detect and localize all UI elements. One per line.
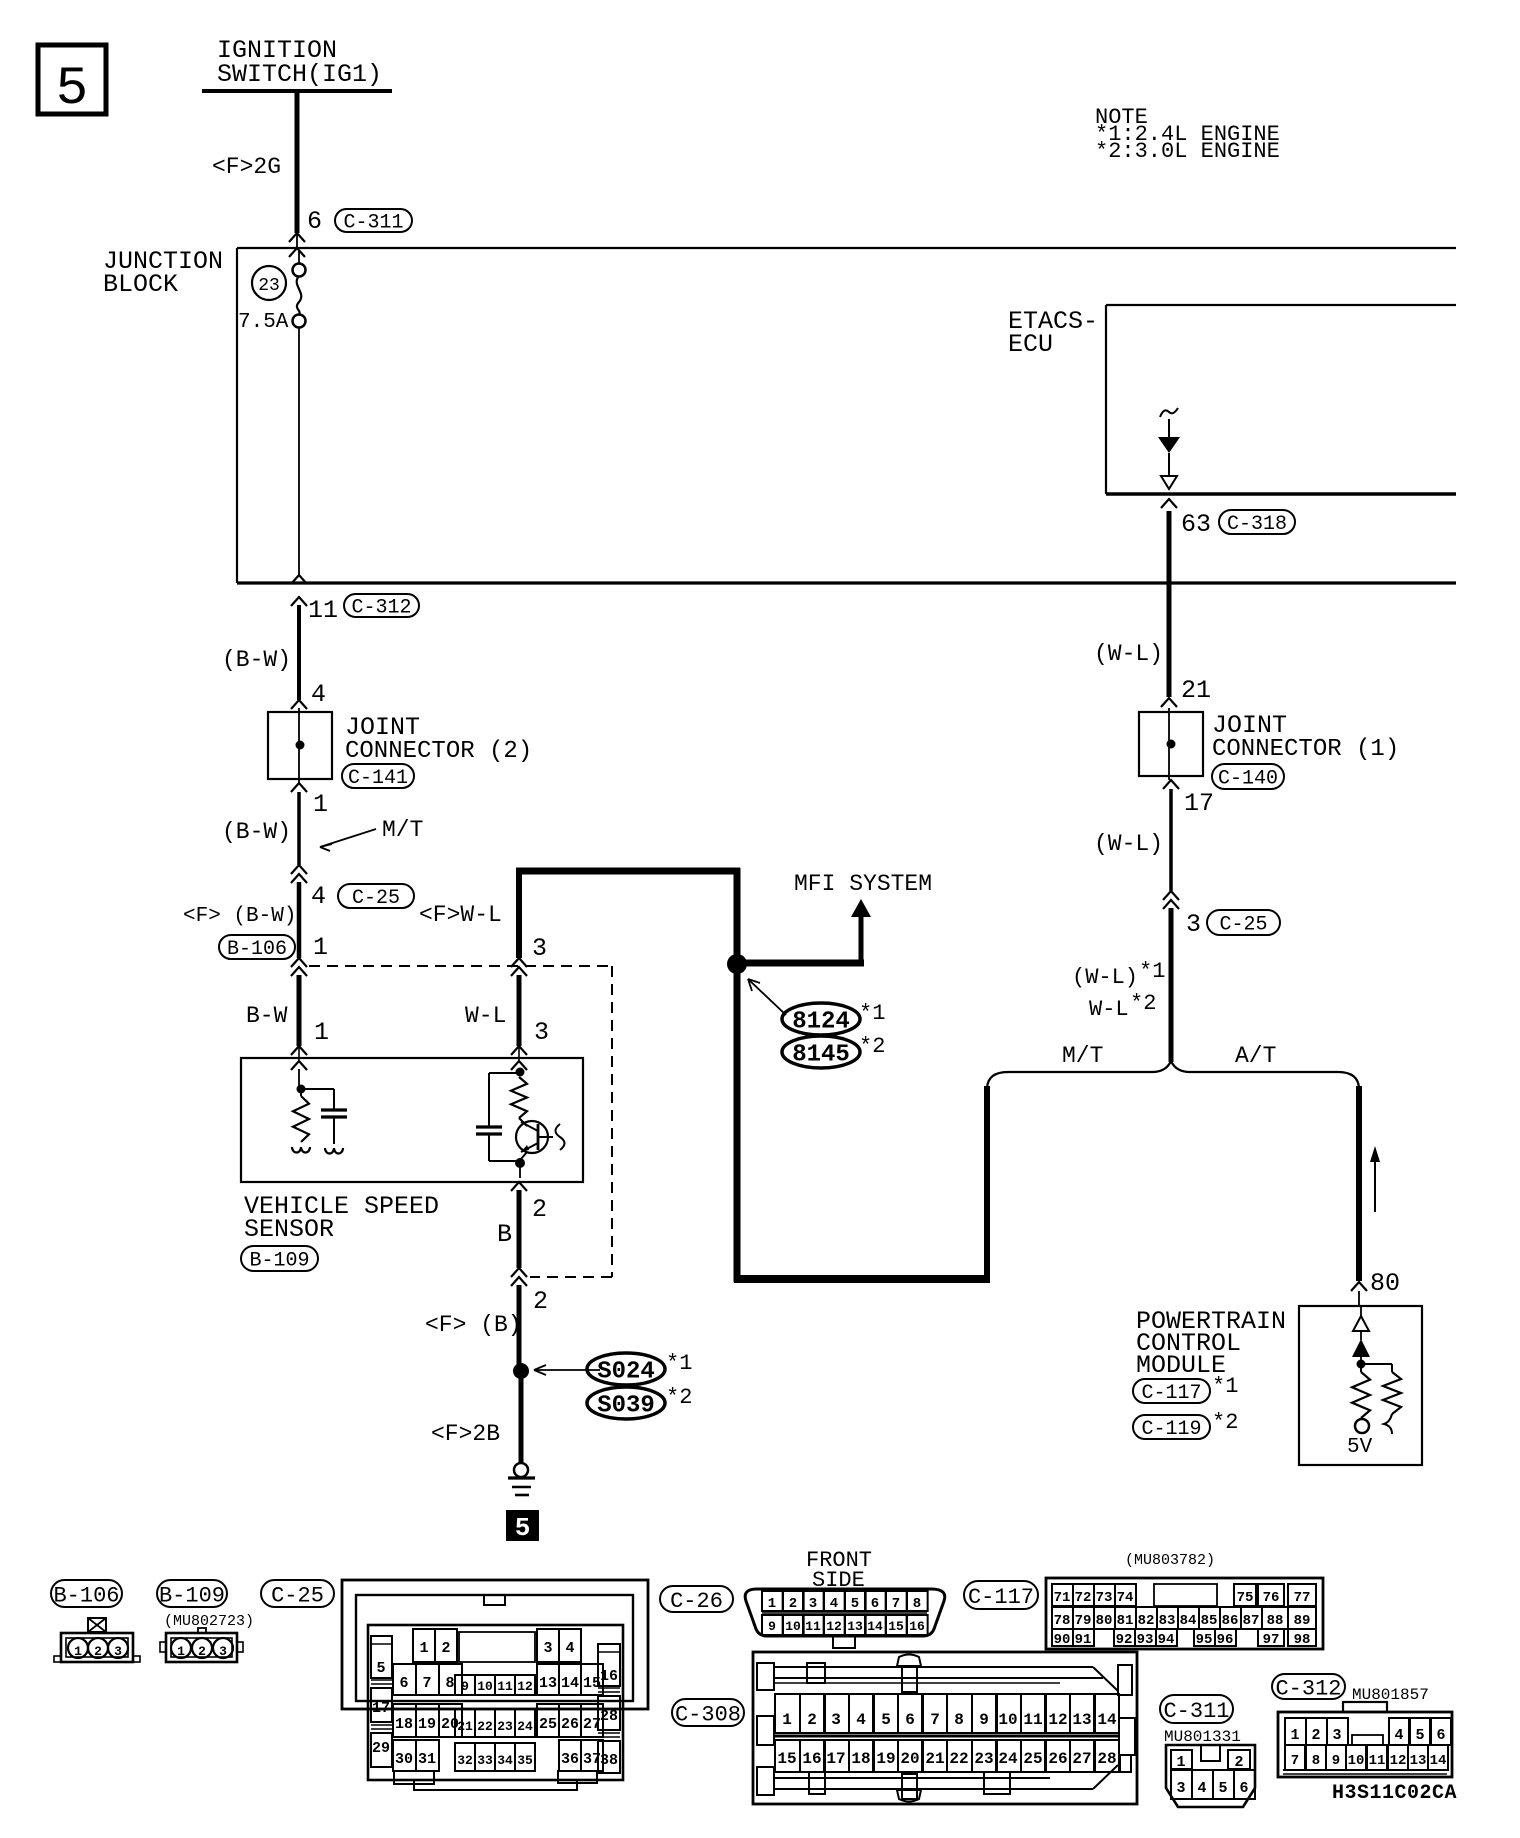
svg-text:SENSOR: SENSOR xyxy=(244,1215,334,1244)
svg-text:11: 11 xyxy=(1369,1753,1386,1769)
svg-text:(MU802723): (MU802723) xyxy=(164,1613,254,1630)
svg-text:8145: 8145 xyxy=(792,1042,850,1069)
svg-text:77: 77 xyxy=(1294,1590,1311,1606)
svg-text:80: 80 xyxy=(1370,1269,1400,1298)
wire label (F)(B) xyxy=(425,1312,522,1338)
splice S039 xyxy=(587,1387,665,1420)
svg-text:1: 1 xyxy=(419,1640,428,1657)
svg-text:SWITCH(IG1): SWITCH(IG1) xyxy=(217,60,382,89)
pcm 5V source xyxy=(1347,1419,1373,1459)
splice 8124 note *1 xyxy=(859,1001,885,1026)
svg-text:3: 3 xyxy=(809,1596,817,1612)
M/T note arrow xyxy=(320,817,423,851)
svg-text:24: 24 xyxy=(998,1750,1018,1768)
chevron joint connector 1 pin 17 xyxy=(1163,780,1179,789)
svg-text:17: 17 xyxy=(1184,789,1214,818)
svg-text:13: 13 xyxy=(539,1675,557,1692)
sensor right wire xyxy=(518,1069,520,1072)
double chevron sensor branch pin 3 xyxy=(511,958,527,976)
svg-text:14: 14 xyxy=(561,1675,579,1692)
svg-text:6: 6 xyxy=(905,1711,915,1729)
chevron above junction block bottom xyxy=(291,575,307,584)
pin 1 label B-106 xyxy=(313,933,328,962)
svg-text:89: 89 xyxy=(1294,1613,1311,1629)
svg-text:37: 37 xyxy=(583,1751,601,1768)
svg-text:27: 27 xyxy=(583,1716,601,1733)
svg-text:81: 81 xyxy=(1117,1613,1134,1629)
svg-text:4: 4 xyxy=(830,1596,838,1612)
svg-text:(W-L): (W-L) xyxy=(1072,965,1138,990)
junction block outline xyxy=(237,248,1456,583)
svg-text:21: 21 xyxy=(925,1750,944,1768)
pin 4 label upper xyxy=(311,680,326,709)
svg-text:1: 1 xyxy=(74,1644,82,1659)
chevron C-318 pin 63 xyxy=(1161,499,1177,508)
vehicle speed sensor box xyxy=(241,1058,583,1182)
svg-text:1: 1 xyxy=(1290,1727,1299,1744)
svg-text:75: 75 xyxy=(1237,1590,1254,1606)
svg-text:8: 8 xyxy=(1312,1753,1320,1769)
connector C-26 face xyxy=(745,1589,945,1648)
svg-text:10: 10 xyxy=(998,1711,1017,1729)
svg-text:26: 26 xyxy=(561,1716,579,1733)
svg-text:C-25: C-25 xyxy=(271,1583,324,1608)
svg-text:5: 5 xyxy=(376,1660,385,1677)
joint connector 1 title xyxy=(1212,711,1399,763)
svg-text:6: 6 xyxy=(871,1596,879,1612)
diode in ETACS-ECU xyxy=(1158,408,1180,489)
svg-text:33: 33 xyxy=(477,1753,493,1768)
svg-text:<F> (B): <F> (B) xyxy=(425,1312,522,1338)
svg-text:(B-W): (B-W) xyxy=(222,819,291,845)
svg-text:B-106: B-106 xyxy=(227,938,287,961)
chevron joint connector 1 pin 21 xyxy=(1161,698,1177,707)
svg-text:10: 10 xyxy=(785,1619,801,1634)
svg-text:6: 6 xyxy=(399,1675,408,1692)
svg-text:2: 2 xyxy=(441,1640,450,1657)
powertrain control module label xyxy=(1136,1307,1286,1380)
svg-text:96: 96 xyxy=(1217,1632,1234,1648)
svg-text:87: 87 xyxy=(1243,1613,1260,1629)
brace split M/T A/T xyxy=(987,1061,1359,1088)
svg-text:16: 16 xyxy=(909,1619,925,1634)
svg-text:4: 4 xyxy=(856,1711,866,1729)
svg-text:84: 84 xyxy=(1180,1613,1197,1629)
svg-text:86: 86 xyxy=(1222,1613,1239,1629)
pin 3 label sensor xyxy=(534,1018,549,1047)
svg-text:5: 5 xyxy=(56,59,88,120)
svg-text:3: 3 xyxy=(543,1640,552,1657)
svg-text:15: 15 xyxy=(777,1750,796,1768)
wire label (W-L) xyxy=(1094,641,1163,667)
double chevron F B xyxy=(511,1268,527,1286)
svg-text:MU801331: MU801331 xyxy=(1164,1728,1241,1746)
wire W-L to MT AT split xyxy=(1169,908,1174,1062)
wire ignition switch to C-311 (F)2G xyxy=(295,91,300,233)
splice S024 note *1 xyxy=(666,1351,692,1376)
svg-text:*1: *1 xyxy=(666,1351,692,1376)
C-117 part number xyxy=(1125,1552,1215,1569)
svg-text:A/T: A/T xyxy=(1235,1043,1276,1069)
joint connector 2 C-141 xyxy=(268,708,332,783)
svg-text:32: 32 xyxy=(457,1753,473,1768)
front side label xyxy=(806,1548,872,1593)
C-312 part number xyxy=(1352,1686,1429,1704)
svg-text:93: 93 xyxy=(1137,1632,1154,1648)
connector label C-25 right xyxy=(1207,910,1280,937)
svg-text:14: 14 xyxy=(1430,1753,1447,1769)
chevron PCM pin 80 xyxy=(1351,1282,1367,1306)
wire label (W-L) lower xyxy=(1094,831,1163,857)
svg-text:B-106: B-106 xyxy=(53,1583,119,1608)
connector label C-312 xyxy=(344,594,419,620)
svg-text:22: 22 xyxy=(949,1750,968,1768)
svg-text:C-318: C-318 xyxy=(1227,513,1287,536)
svg-text:2: 2 xyxy=(94,1644,102,1659)
svg-text:9: 9 xyxy=(1332,1753,1340,1769)
svg-text:W-L: W-L xyxy=(465,1003,506,1029)
svg-text:1: 1 xyxy=(782,1711,792,1729)
chevron sensor pin 3 xyxy=(511,1046,527,1060)
connector label C-119 pcm xyxy=(1133,1415,1210,1441)
svg-text:91: 91 xyxy=(1075,1632,1092,1648)
svg-text:2: 2 xyxy=(198,1644,206,1659)
svg-text:4: 4 xyxy=(1197,1780,1206,1797)
arrow to splice S024 xyxy=(534,1365,600,1375)
wire label F W-L xyxy=(419,902,502,928)
joint connector 1 C-140 xyxy=(1139,708,1203,780)
pin 1 label xyxy=(313,790,328,819)
svg-text:1: 1 xyxy=(177,1644,185,1659)
connector B-109 face xyxy=(160,1628,243,1662)
wire B to ground xyxy=(517,1190,522,1268)
svg-text:27: 27 xyxy=(1072,1750,1091,1768)
svg-text:10: 10 xyxy=(477,1679,493,1694)
wire label B xyxy=(497,1220,512,1249)
chevron into junction block xyxy=(289,248,305,257)
svg-text:W-L: W-L xyxy=(1089,997,1129,1022)
wire label (F)2B xyxy=(431,1421,500,1447)
svg-text:*2: *2 xyxy=(859,1034,885,1059)
svg-text:3: 3 xyxy=(114,1644,122,1659)
svg-text:8: 8 xyxy=(954,1711,964,1729)
svg-text:22: 22 xyxy=(477,1719,493,1734)
svg-text:17: 17 xyxy=(372,1700,390,1717)
wire (W-L) joint connector 1 to C-25 xyxy=(1169,789,1173,891)
fuse 7.5A xyxy=(238,250,306,334)
svg-text:B-W: B-W xyxy=(246,1003,288,1029)
svg-text:6: 6 xyxy=(1436,1727,1445,1744)
svg-text:7.5A: 7.5A xyxy=(238,311,289,334)
sensor capacitor C right xyxy=(476,1073,519,1161)
svg-text:4: 4 xyxy=(311,882,326,911)
svg-text:9: 9 xyxy=(461,1679,469,1694)
connector label C-141 xyxy=(342,764,414,790)
page number 5 box xyxy=(38,45,106,120)
powertrain control module box xyxy=(1299,1306,1422,1465)
svg-text:2: 2 xyxy=(807,1711,817,1729)
MFI system arrow xyxy=(851,899,871,917)
svg-text:ECU: ECU xyxy=(1008,330,1053,359)
svg-text:6: 6 xyxy=(1239,1780,1248,1797)
svg-text:8: 8 xyxy=(445,1675,454,1692)
connector C-117 face xyxy=(1046,1578,1323,1649)
svg-text:85: 85 xyxy=(1201,1613,1218,1629)
svg-text:14: 14 xyxy=(1097,1711,1117,1729)
svg-text:3: 3 xyxy=(831,1711,841,1729)
svg-text:<F> (B-W): <F> (B-W) xyxy=(183,905,296,928)
svg-text:B-109: B-109 xyxy=(159,1583,225,1608)
svg-text:26: 26 xyxy=(1048,1750,1067,1768)
wire MFI branch horizontal xyxy=(737,960,864,967)
svg-text:21: 21 xyxy=(1181,676,1211,705)
svg-text:12: 12 xyxy=(1390,1753,1407,1769)
connector B-106 face xyxy=(54,1618,140,1662)
connector label B-109 bottom xyxy=(157,1580,227,1608)
svg-text:*1: *1 xyxy=(1139,959,1165,984)
svg-text:95: 95 xyxy=(1196,1632,1213,1648)
svg-text:34: 34 xyxy=(497,1753,513,1768)
svg-text:98: 98 xyxy=(1294,1632,1311,1648)
svg-text:C-117: C-117 xyxy=(968,1585,1034,1610)
wire (F)(B) xyxy=(517,1285,522,1371)
svg-text:11: 11 xyxy=(497,1679,513,1694)
junction node S024 xyxy=(513,1363,529,1379)
svg-text:C-140: C-140 xyxy=(1218,768,1278,791)
pin 17 label xyxy=(1184,789,1214,818)
svg-text:5: 5 xyxy=(515,1513,531,1543)
splice S039 note *2 xyxy=(666,1385,692,1410)
wire fuse to C-312 xyxy=(298,327,300,576)
pin 2 label lower xyxy=(533,1287,548,1316)
svg-text:(W-L): (W-L) xyxy=(1094,641,1163,667)
svg-text:M/T: M/T xyxy=(382,817,423,843)
wire A/T branch vertical xyxy=(1356,1086,1362,1281)
wire heavy M/T branch vertical xyxy=(984,1086,990,1282)
branch label M/T xyxy=(1062,1043,1103,1069)
svg-text:9: 9 xyxy=(979,1711,989,1729)
svg-text:16: 16 xyxy=(802,1750,821,1768)
svg-text:5: 5 xyxy=(1218,1780,1227,1797)
svg-text:S039: S039 xyxy=(597,1393,655,1420)
wire to ground symbol xyxy=(519,1371,524,1463)
svg-text:17: 17 xyxy=(826,1750,845,1768)
dashed option outline xyxy=(309,966,612,1277)
svg-text:H3S11C02CA: H3S11C02CA xyxy=(1332,1782,1457,1805)
svg-text:24: 24 xyxy=(517,1719,533,1734)
pcm wire to right resistor xyxy=(1361,1364,1392,1372)
svg-text:19: 19 xyxy=(876,1750,895,1768)
svg-text:*2: *2 xyxy=(666,1385,692,1410)
svg-text:31: 31 xyxy=(418,1751,436,1768)
svg-text:(W-L): (W-L) xyxy=(1094,831,1163,857)
svg-text:78: 78 xyxy=(1054,1613,1071,1629)
svg-text:3: 3 xyxy=(532,934,547,963)
chevron joint connector 2 pin 1 xyxy=(291,783,307,792)
svg-text:4: 4 xyxy=(1394,1727,1403,1744)
sensor transistor Q xyxy=(516,1118,565,1159)
chevron inside sensor right xyxy=(511,1061,527,1070)
svg-text:8124: 8124 xyxy=(792,1009,850,1036)
svg-text:76: 76 xyxy=(1263,1590,1280,1606)
wire heavy W-L horizontal upper xyxy=(516,868,740,875)
connector label C-140 xyxy=(1212,764,1284,791)
MFI SYSTEM label xyxy=(794,871,932,897)
svg-text:28: 28 xyxy=(1097,1750,1116,1768)
svg-text:C-141: C-141 xyxy=(348,767,408,790)
svg-text:35: 35 xyxy=(517,1753,533,1768)
svg-text:80: 80 xyxy=(1096,1613,1113,1629)
svg-text:M/T: M/T xyxy=(1062,1043,1103,1069)
svg-text:B-109: B-109 xyxy=(249,1250,309,1273)
svg-text:15: 15 xyxy=(888,1619,904,1634)
svg-text:79: 79 xyxy=(1075,1613,1092,1629)
connector label C-311 xyxy=(335,209,412,235)
pin 6 label xyxy=(307,207,322,236)
ignition switch label xyxy=(217,36,382,89)
wire label W-L*2 xyxy=(1089,991,1156,1022)
svg-text:18: 18 xyxy=(395,1716,413,1733)
svg-text:2: 2 xyxy=(789,1596,797,1612)
connector C-308 face xyxy=(753,1652,1137,1804)
svg-text:7: 7 xyxy=(1291,1753,1299,1769)
svg-text:*2: *2 xyxy=(1212,1410,1238,1435)
svg-text:3: 3 xyxy=(534,1018,549,1047)
svg-text:1: 1 xyxy=(768,1596,776,1612)
drawing number xyxy=(1332,1782,1457,1805)
svg-text:CONNECTOR (1): CONNECTOR (1) xyxy=(1212,736,1399,763)
svg-text:63: 63 xyxy=(1181,510,1211,539)
svg-text:C-312: C-312 xyxy=(1275,1676,1341,1701)
svg-text:C-25: C-25 xyxy=(352,887,400,910)
svg-text:23: 23 xyxy=(974,1750,993,1768)
svg-text:C-311: C-311 xyxy=(343,212,403,235)
wire label (W-L)*1 xyxy=(1072,959,1165,990)
svg-text:4: 4 xyxy=(565,1640,574,1657)
svg-text:19: 19 xyxy=(418,1716,436,1733)
pin 1 label sensor xyxy=(314,1018,329,1047)
svg-text:1: 1 xyxy=(313,790,328,819)
chevron C-312 pin 11 xyxy=(291,597,307,606)
sensor title xyxy=(244,1192,439,1244)
junction block label xyxy=(103,247,223,299)
wire heavy horizontal bottom xyxy=(734,1275,990,1283)
pin 80 label xyxy=(1370,1269,1400,1298)
svg-text:83: 83 xyxy=(1159,1613,1176,1629)
chevron sensor pin 2 xyxy=(511,1182,527,1191)
connector C-311 face xyxy=(1166,1745,1255,1807)
wire (F)(B-W) to B-106 xyxy=(297,882,302,958)
svg-text:73: 73 xyxy=(1096,1590,1113,1606)
double chevron C-25 pin 4 xyxy=(291,865,307,883)
svg-text:C-117: C-117 xyxy=(1141,1382,1201,1405)
connector label C-25 bottom xyxy=(261,1580,334,1608)
svg-text:7: 7 xyxy=(892,1596,900,1612)
svg-text:4: 4 xyxy=(311,680,326,709)
svg-text:B: B xyxy=(497,1220,512,1249)
svg-text:30: 30 xyxy=(395,1751,413,1768)
B-109 part number xyxy=(164,1613,254,1630)
svg-text:12: 12 xyxy=(517,1679,533,1694)
svg-text:5: 5 xyxy=(1415,1727,1424,1744)
pcm node xyxy=(1357,1360,1366,1369)
svg-text:5V: 5V xyxy=(1347,1436,1373,1459)
joint connector 2 title xyxy=(345,713,532,765)
svg-text:C-119: C-119 xyxy=(1141,1418,1201,1441)
svg-text:14: 14 xyxy=(867,1619,883,1634)
svg-text:<F>W-L: <F>W-L xyxy=(419,902,502,928)
sensor node right top xyxy=(516,1068,525,1077)
sensor capacitor C left xyxy=(301,1089,347,1154)
C-311 part number xyxy=(1164,1728,1241,1746)
svg-text:23: 23 xyxy=(258,276,280,296)
junction node MFI splice xyxy=(727,954,747,974)
svg-text:7: 7 xyxy=(930,1711,940,1729)
sensor node bottom xyxy=(515,1158,525,1168)
pin 3 label top xyxy=(532,934,547,963)
svg-text:3: 3 xyxy=(1332,1727,1341,1744)
svg-text:18: 18 xyxy=(851,1750,870,1768)
connector label B-106 mid xyxy=(219,935,295,961)
splice S024 xyxy=(587,1353,665,1386)
splice 8145 xyxy=(782,1036,860,1069)
page ref 5 black box xyxy=(506,1510,539,1543)
wire label W-L xyxy=(465,1003,506,1029)
wire heavy W-L vertical to sensor xyxy=(516,868,522,958)
pin 11 label xyxy=(308,596,338,625)
svg-text:BLOCK: BLOCK xyxy=(103,270,178,299)
connector label C-117 bottom xyxy=(964,1581,1038,1610)
connector label C-117 pcm xyxy=(1133,1379,1210,1405)
chevron sensor pin 1 xyxy=(291,1046,307,1060)
pin 4 label lower xyxy=(311,882,326,911)
svg-text:7: 7 xyxy=(422,1675,431,1692)
wire label (B-W) upper xyxy=(222,647,291,673)
svg-text:C-312: C-312 xyxy=(351,597,411,620)
svg-text:82: 82 xyxy=(1138,1613,1155,1629)
svg-text:25: 25 xyxy=(539,1716,557,1733)
svg-text:97: 97 xyxy=(1263,1632,1280,1648)
svg-text:C-311: C-311 xyxy=(1163,1699,1229,1724)
direction arrow up xyxy=(1370,1146,1380,1212)
svg-text:13: 13 xyxy=(1410,1753,1427,1769)
svg-text:23: 23 xyxy=(497,1719,513,1734)
double chevron C-25 pin 3 xyxy=(1163,891,1179,909)
svg-text:C-25: C-25 xyxy=(1219,914,1267,937)
wire B-W to sensor xyxy=(297,975,302,1046)
wire (B-W) C-312 to joint connector 2 xyxy=(297,605,301,700)
ignition switch bus bar xyxy=(202,89,392,93)
connector label B-109 mid xyxy=(241,1246,318,1273)
svg-text:MFI SYSTEM: MFI SYSTEM xyxy=(794,871,932,897)
wire W-L to sensor xyxy=(517,975,522,1046)
wire MFI branch vertical xyxy=(859,915,864,966)
ETACS-ECU label xyxy=(1008,307,1098,359)
connector label C-308 bottom xyxy=(672,1699,744,1727)
wire label (F)2G xyxy=(212,154,281,180)
svg-text:20: 20 xyxy=(900,1750,919,1768)
sensor resistor R xyxy=(292,1089,310,1153)
label *1 pcm xyxy=(1212,1374,1238,1399)
wire heavy vertical riser xyxy=(734,868,741,1282)
double chevron B-106 pin 1 xyxy=(291,958,307,976)
svg-text:1: 1 xyxy=(1176,1754,1185,1771)
connector label C-311 bottom xyxy=(1160,1695,1233,1724)
pin 3 label right xyxy=(1186,910,1201,939)
svg-text:2: 2 xyxy=(1311,1727,1320,1744)
svg-text:5: 5 xyxy=(881,1711,891,1729)
svg-text:88: 88 xyxy=(1267,1613,1284,1629)
